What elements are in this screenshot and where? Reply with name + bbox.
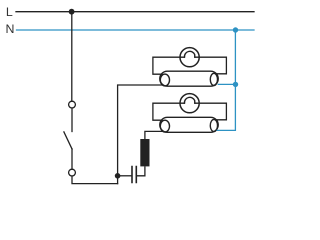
svg-text:N: N xyxy=(6,22,15,36)
starter S lamp 1 xyxy=(180,48,199,67)
capacitor C1 xyxy=(132,167,136,183)
filament electrode right lamp 1 xyxy=(210,73,217,85)
node junction on L xyxy=(69,9,75,15)
tube lamp 1 xyxy=(160,71,218,86)
node junction dot xyxy=(115,173,121,179)
switch S1 blade xyxy=(64,132,72,149)
wire ballast to lamp 2 xyxy=(145,131,163,139)
wire switch fixed contact xyxy=(71,108,73,132)
wire L to switch xyxy=(71,12,73,102)
wire N line xyxy=(17,29,255,31)
node lamp 1 N junction xyxy=(233,82,238,87)
wire node vertical to lamp 1 feed xyxy=(118,85,163,184)
lamp 1 (upper fluorescent tube assembly) xyxy=(153,48,227,87)
filament electrode right lamp 2 xyxy=(210,119,217,131)
ballast (inductor) xyxy=(140,139,149,166)
filament electrode left lamp 2 xyxy=(160,120,169,132)
wire capacitor to ballast xyxy=(137,167,145,176)
wire N drop (blue vertical) xyxy=(217,30,235,130)
tube lamp 2 xyxy=(160,117,218,132)
filament electrode left lamp 1 xyxy=(160,74,169,86)
wire switch to node xyxy=(72,176,118,184)
starter S lamp 2 xyxy=(180,94,199,113)
switch S1 top terminal xyxy=(69,101,76,108)
wire blade to bottom terminal xyxy=(71,149,73,169)
wire L line xyxy=(16,11,254,13)
starter housing wiring (rect) lamp 2 xyxy=(153,103,227,120)
lamp 2 (lower fluorescent tube assembly) xyxy=(153,94,227,133)
svg-text:L: L xyxy=(6,5,13,19)
node N tap xyxy=(233,27,238,32)
wire lamp 1 to N xyxy=(218,83,235,85)
wire node to capacitor xyxy=(118,175,132,177)
starter housing wiring (rect) lamp 1 xyxy=(153,57,227,74)
switch S1 bottom terminal xyxy=(69,169,76,176)
